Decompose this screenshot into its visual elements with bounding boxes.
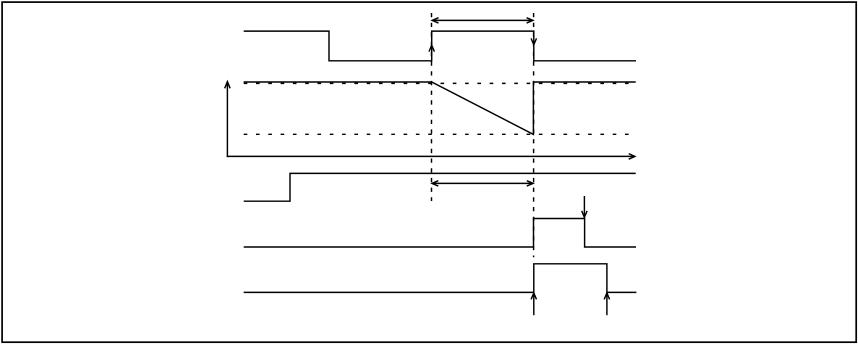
wire: up arrow stem at waveform-4 falling edge [606, 293, 608, 315]
wire: pulse-width double arrow shaft (top) [432, 19, 533, 21]
wire: analog ramp trace (hold level, down ramp, reset) [244, 82, 636, 134]
wire: waveform 2 (enable signal rising early) [244, 173, 636, 201]
node: down arrowhead at waveform-3 falling edge [582, 211, 587, 218]
node: vertical axis up arrowhead [225, 82, 230, 89]
wire: dashed vertical cursor line 1 [431, 13, 433, 201]
wire: dashed vertical cursor line 2 [533, 13, 535, 257]
node: left arrowhead of middle double arrow [432, 181, 438, 186]
wire: upper dashed reference level [244, 82, 631, 84]
wire: waveform 4 (output strobe pulse) [244, 264, 637, 293]
node: up arrowhead at waveform-4 falling edge [604, 293, 609, 299]
node: horizontal axis right arrowhead [629, 154, 635, 160]
wire: horizontal time axis line [227, 155, 634, 157]
node: down arrowhead on waveform-1 falling edge [531, 38, 536, 44]
node: up arrowhead on waveform-1 rising edge [429, 45, 434, 51]
wire: waveform 1 (top gate pulse signal) [244, 31, 636, 61]
wire: delay double arrow shaft (middle) [432, 182, 533, 184]
wire: up arrow stem at waveform-4 rising edge [533, 293, 535, 315]
node: up arrowhead at waveform-4 rising edge [531, 293, 536, 299]
wire: lower dashed reference level [244, 133, 630, 135]
wire: waveform 3 (comparator output pulse) [244, 219, 636, 248]
node: right arrowhead of top double arrow [527, 18, 533, 23]
wire: vertical axis line [226, 83, 228, 158]
wire: down arrow stem at waveform-3 falling edge [583, 196, 585, 217]
node: left arrowhead of top double arrow [432, 18, 438, 23]
node: right arrowhead of middle double arrow [527, 181, 533, 186]
